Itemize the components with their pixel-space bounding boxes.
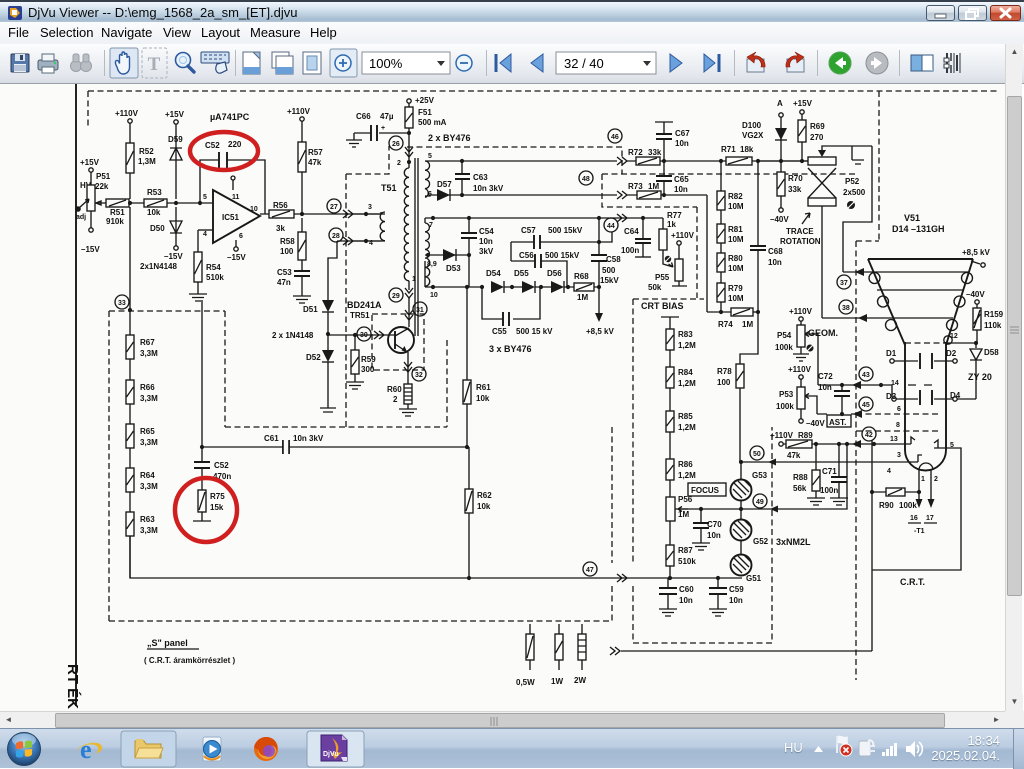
save icon [11,54,29,72]
svg-text:TR51: TR51 [350,311,370,320]
transformer core [415,158,418,336]
svg-text:10M: 10M [728,235,744,244]
heater pins 1 2 arrows [919,470,931,500]
wire y195 from winding 6 [425,195,707,196]
svg-text:R53: R53 [147,188,162,197]
svg-text:R69: R69 [810,122,825,131]
diode D54 [480,285,484,289]
node 31 [413,302,427,316]
T51 secondary 5-6 [425,161,430,197]
svg-text:R85: R85 [678,412,693,421]
svg-text:DjVu: DjVu [323,751,339,758]
zoom combobox 100% [362,52,450,74]
emitter wire + node 32 [407,352,409,384]
svg-text:ZY 20: ZY 20 [968,372,992,382]
feedback cap C52 220 wire [200,160,265,214]
outer dashed border top [88,90,998,92]
svg-text:C70: C70 [707,520,722,529]
tube socket arc [905,450,946,471]
svg-text:1M: 1M [678,510,689,519]
potentiometer P55 [678,245,680,259]
svg-text:–40V: –40V [770,215,789,224]
wire into funnel y318 [822,317,886,319]
back icon green [829,52,851,74]
firefox icon [254,737,278,761]
pan tool button (active) [110,48,138,78]
svg-text:G52: G52 [753,537,769,546]
svg-text:CRT BIAS: CRT BIAS [641,301,684,311]
svg-text:8: 8 [896,422,900,429]
svg-text:1,2M: 1,2M [678,341,696,350]
tray flag [837,735,852,756]
wire node28 down to diode column [328,241,337,300]
svg-text:R74: R74 [718,320,733,329]
G interconnect wires [740,462,742,555]
node 29 [389,288,403,302]
svg-text:910k: 910k [106,217,124,226]
svg-text:e: e [80,735,92,764]
svg-text:R88: R88 [793,473,808,482]
svg-text:2: 2 [393,395,398,404]
svg-text:100k: 100k [899,501,917,510]
print icon [38,54,58,73]
node 27 [327,199,341,213]
svg-text:R67: R67 [140,338,155,347]
svg-text:45: 45 [862,402,870,409]
svg-text:10n: 10n [729,596,743,605]
svg-text:10n: 10n [768,258,782,267]
svg-text:10k: 10k [477,502,491,511]
node 47 [583,562,597,576]
AST box [827,415,851,427]
capacitor C68 [757,161,759,312]
svg-text:47µ: 47µ [380,112,394,121]
svg-text:R52: R52 [139,147,154,156]
node 50 [750,446,764,460]
svg-text:3 x BY476: 3 x BY476 [489,344,532,354]
wire winding4 to node28 [353,240,385,242]
svg-text:2W: 2W [574,676,586,685]
djvu app button (active) [307,731,364,767]
svg-text:32: 32 [415,372,423,379]
svg-text:C72: C72 [818,372,833,381]
svg-text:C57: C57 [521,226,536,235]
two page view icon [911,55,933,71]
resistor chain R84 [669,350,671,367]
node 45 [859,397,873,411]
svg-text:C65: C65 [674,175,689,184]
resistor R53 [144,199,167,207]
node 30 [357,327,371,341]
svg-text:43: 43 [862,372,870,379]
svg-text:1: 1 [921,476,925,483]
resistor chain R67 [126,335,134,359]
resistor chain R65 [126,424,134,448]
svg-text:–40V: –40V [966,290,985,299]
svg-text:ROTATION: ROTATION [780,237,821,246]
svg-text:8,9: 8,9 [427,261,437,268]
R74 to R78 corner [740,312,758,364]
svg-text:30: 30 [360,332,368,339]
prev page arrow [531,54,543,72]
svg-text:500 15kV: 500 15kV [548,226,583,235]
resistor R78 [736,364,744,388]
svg-text:R66: R66 [140,383,155,392]
X cross wires [808,168,836,198]
resistor R72 [636,157,660,165]
svg-text:3: 3 [368,204,372,211]
R75 end bar [193,512,211,521]
svg-text:C56: C56 [519,251,534,260]
svg-text:500 mA: 500 mA [418,118,447,127]
dashed 2xBY476 box line [407,147,622,174]
svg-text:R68: R68 [574,272,589,281]
svg-text:D50: D50 [150,224,165,233]
svg-text:510k: 510k [206,273,224,282]
svg-text:3,3M: 3,3M [140,349,158,358]
resistor chain R83 [661,317,679,329]
svg-text:220: 220 [228,140,242,149]
svg-text:33: 33 [118,300,126,307]
page layout icon 2 [272,52,293,74]
svg-text:R72: R72 [628,148,643,157]
page combobox 32/40 [556,52,656,74]
svg-text:15kV: 15kV [600,276,619,285]
wire vertical x202 [201,300,203,447]
wire y218 cascade top [425,217,663,219]
svg-text:R56: R56 [273,201,288,210]
resistor R59 [354,335,356,382]
svg-text:56k: 56k [793,484,807,493]
diode D57 [437,189,450,201]
svg-text:T: T [148,54,161,75]
capacitor C61 [283,440,289,454]
pin 4 wire [198,229,213,231]
svg-text:1,2M: 1,2M [678,423,696,432]
resistor chain R86 [669,432,671,459]
pin 5 wire [872,448,961,570]
sample resistor 1W [558,624,560,670]
output wire y214 [260,213,381,215]
svg-text:D55: D55 [514,269,529,278]
last page arrow [704,54,719,72]
first page arrow [496,54,511,72]
node 48 [579,171,593,185]
next page arrow [670,54,682,72]
resistor R68 [574,283,594,291]
resistor R57 [301,121,303,214]
svg-text:500 15 kV: 500 15 kV [516,327,553,336]
adjust dot [847,201,855,209]
sample resistor 0,5W [529,624,531,670]
svg-text:100k: 100k [776,402,794,411]
transistor Q TR51 [388,327,414,353]
svg-text:R54: R54 [206,263,221,272]
resistor chain R64 [126,468,134,492]
capacitor C55 loop [482,287,540,319]
ground R60 [399,404,417,416]
svg-text:D56: D56 [547,269,562,278]
svg-text:R71: R71 [721,145,736,154]
dashed channel x612 [611,427,613,621]
svg-text:27: 27 [330,204,338,211]
svg-text:C60: C60 [679,585,694,594]
capacitor C63 [461,161,463,195]
capacitor C65 [663,161,665,195]
svg-text:46: 46 [611,134,619,141]
node dot [174,201,178,205]
capacitor C59 [716,576,720,580]
svg-text:300: 300 [361,365,375,374]
zoom select icon [176,53,195,73]
svg-text:10n: 10n [707,531,721,540]
svg-text:P54: P54 [777,331,792,340]
svg-text:P51: P51 [96,172,111,181]
svg-text:+25V: +25V [415,96,435,105]
resistor slash marks [127,113,981,653]
diode D51 [322,300,334,312]
dashed channel x629 [632,299,634,643]
svg-text:2: 2 [934,476,938,483]
FOCUS box [688,483,726,496]
resistor chain R79 [720,272,722,283]
scan/barcode icon [944,53,960,73]
rotate left icon [747,52,765,72]
svg-text:D14 –131GH: D14 –131GH [892,224,945,234]
svg-text:V51: V51 [904,213,920,223]
svg-text:+110V: +110V [115,109,139,118]
svg-text:10: 10 [430,292,438,299]
svg-text:R70: R70 [788,174,803,183]
P51 adj arrow [79,199,89,208]
page layout icon 3 [303,52,321,74]
svg-text:TRACE: TRACE [786,227,814,236]
svg-text:R83: R83 [678,330,693,339]
capacitor C54 [468,218,470,233]
zoom-out button [456,55,472,71]
svg-text:IC51: IC51 [222,213,239,222]
chevrons y195 [617,191,627,199]
svg-text:+110V: +110V [788,365,812,374]
svg-text:P53: P53 [779,390,794,399]
svg-text:15k: 15k [210,503,224,512]
resistor R90 [872,491,919,493]
svg-text:100: 100 [717,378,731,387]
svg-text:1,2M: 1,2M [678,471,696,480]
wire y385 node43 [818,385,892,397]
svg-text:R57: R57 [308,148,323,157]
svg-text:C.R.T.: C.R.T. [900,577,925,587]
svg-text:17: 17 [926,515,934,522]
binoculars icon (disabled) [71,54,92,72]
svg-text:10n: 10n [679,596,693,605]
trace rotation pot P52 lower [808,198,836,206]
svg-text:47n: 47n [277,278,291,287]
svg-text:R89: R89 [798,431,813,440]
svg-text:R79: R79 [728,284,743,293]
svg-text:R159: R159 [984,310,1004,319]
page layout icon 1 [243,52,260,74]
svg-text:6: 6 [239,233,243,240]
T51 secondary 7-10 [425,223,430,286]
trace rotation wires down [843,146,872,272]
svg-text:47k: 47k [787,451,801,460]
wire y462 to tube [741,461,905,463]
explorer folder button [121,731,176,767]
svg-text:12: 12 [950,333,958,340]
resistor R61 [466,287,468,445]
node 43 [859,367,873,381]
svg-text:10n: 10n [675,139,689,148]
chevrons base [374,331,384,339]
svg-text:R84: R84 [678,368,693,377]
wire y447 to C61 [202,446,469,448]
CRT funnel [868,259,973,345]
svg-text:500: 500 [602,266,616,275]
svg-text:500 15kV: 500 15kV [545,251,580,260]
svg-text:42: 42 [865,432,873,439]
svg-text:3k: 3k [276,224,285,233]
resistor R159 [976,304,978,342]
resistor R70 [780,161,782,208]
svg-text:22k: 22k [95,182,109,191]
svg-text:–40V: –40V [806,419,825,428]
svg-text:„S" panel: „S" panel [147,638,188,648]
wire chain bottom corner [130,536,742,578]
node 37 [837,275,851,289]
svg-text:100: 100 [280,247,294,256]
ground C53 [293,296,311,303]
svg-text:C54: C54 [479,227,494,236]
svg-text:C67: C67 [675,129,690,138]
dashed box TR51 [372,314,424,370]
tube body walls [905,342,946,450]
svg-text:D1: D1 [886,349,897,358]
node 38 [839,300,853,314]
wire y414 AST to tube [817,413,856,415]
svg-text:4: 4 [203,231,207,238]
capacitor C67 [655,122,673,161]
svg-text:+15V: +15V [165,110,185,119]
wire winding3 to node27 [353,212,385,214]
grid G53 [731,480,752,501]
node 44 [604,218,618,232]
node 26 [389,136,403,150]
svg-text:C68: C68 [768,247,783,256]
wire winding 10 down [425,261,482,287]
svg-text:D53: D53 [446,264,461,273]
T51 feedback winding 3-4 [380,212,385,241]
wire D52 down + end [320,362,336,412]
svg-text:1,2M: 1,2M [678,379,696,388]
svg-text:31: 31 [416,307,424,314]
capacitor C53 [294,271,310,276]
svg-text:AST.: AST. [829,418,846,427]
keyboard-hand icon [201,52,229,73]
svg-text:3xNM2L: 3xNM2L [776,537,811,547]
capacitor C52 220 plates [219,152,227,168]
svg-text:3,3M: 3,3M [140,526,158,535]
+8.5kV arrow [598,287,600,315]
annotation red circle R75 [175,478,237,542]
heater return wire y651 [621,650,872,652]
wire into funnel y272 [843,271,871,273]
svg-text:5: 5 [203,194,207,201]
svg-text:5: 5 [428,153,432,160]
svg-text:47: 47 [586,567,594,574]
funnel grid lines [871,272,969,318]
svg-text:47k: 47k [308,158,322,167]
svg-text:110k: 110k [984,321,1002,330]
R90 junction vertical [871,440,873,651]
svg-text:C63: C63 [473,173,488,182]
rotate right icon [786,52,804,72]
svg-text:GEOM.: GEOM. [808,328,838,338]
svg-text:+8,5 kV: +8,5 kV [586,327,614,336]
funnel coils right [962,273,973,284]
svg-text:2: 2 [397,160,401,167]
S panel dashed border left [108,311,110,621]
ground C66 [346,133,362,147]
svg-text:D51: D51 [303,305,318,314]
svg-text:R51: R51 [110,208,125,217]
svg-text:10n: 10n [674,185,688,194]
wire D59 [175,124,177,199]
svg-text:16: 16 [910,515,918,522]
resistor R73 [637,191,661,199]
S panel dashed top segment [109,310,225,312]
tray power plug [859,740,875,756]
dashed node48 channel [602,173,856,175]
resistor chain R80 [720,243,722,253]
svg-text:3,3M: 3,3M [140,394,158,403]
svg-text:FOCUS: FOCUS [691,486,720,495]
diode D52 [322,350,334,362]
diode D53 row [425,254,469,256]
svg-text:10n 3kV: 10n 3kV [293,434,324,443]
svg-text:adj: adj [76,214,86,221]
svg-text:49: 49 [756,499,764,506]
svg-text:C58: C58 [606,255,621,264]
capacitor C64 [642,218,644,257]
node dot [128,201,132,205]
tray network bars [882,743,897,756]
svg-text:+15V: +15V [793,99,813,108]
svg-text:48: 48 [582,176,590,183]
svg-text:C55: C55 [492,327,507,336]
svg-text:10k: 10k [476,394,490,403]
zoom-in button (pressed) [330,49,357,77]
funnel coils left [869,273,880,284]
svg-text:100k: 100k [775,343,793,352]
capacitor C58 [598,218,600,255]
fuse F51 [408,103,410,133]
svg-text:100n: 100n [621,246,639,255]
capacitor C57 row [511,241,599,243]
svg-text:P55: P55 [655,273,670,282]
svg-text:R81: R81 [728,225,743,234]
svg-text:+8,5 kV: +8,5 kV [962,248,990,257]
dashed pin8 line [856,430,940,432]
svg-text:R86: R86 [678,460,693,469]
svg-text:1k: 1k [667,220,676,229]
wmp icon [203,737,221,761]
svg-text:50k: 50k [648,283,662,292]
wire between diodes [327,312,329,350]
ground hook [852,146,864,164]
svg-text:10k: 10k [147,208,161,217]
svg-text:50: 50 [753,451,761,458]
